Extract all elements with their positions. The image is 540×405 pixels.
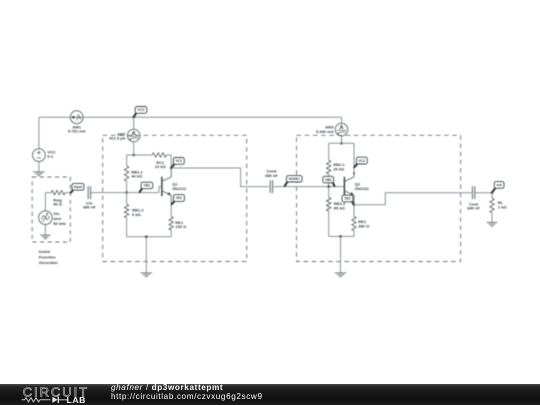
- svg-text:130 Ω: 130 Ω: [175, 224, 187, 229]
- svg-text:680 nF: 680 nF: [265, 173, 278, 178]
- flag VC1: [171, 158, 184, 169]
- capacitor Cin 680nF: [88, 186, 90, 199]
- label RB1-1 44 kOhm: [131, 169, 143, 178]
- svg-text:Generator: Generator: [39, 260, 59, 265]
- svg-text:input: input: [74, 185, 83, 189]
- wire RB1-2 top lead: [126, 193, 128, 205]
- node junction emitter 2: [353, 204, 356, 207]
- wire base jog Q1: [159, 187, 162, 193]
- wire rail2: [329, 142, 354, 144]
- ground stage1: [141, 273, 152, 277]
- svg-text:380 Ω: 380 Ω: [358, 223, 370, 228]
- svg-text:LAB: LAB: [67, 395, 87, 405]
- svg-text:680 nF: 680 nF: [467, 206, 480, 211]
- wire RE2 to rail: [353, 231, 355, 237]
- label Rsig 50 Ohm: [53, 197, 63, 206]
- svg-text:5.340 mA: 5.340 mA: [316, 129, 334, 134]
- node junction out: [491, 191, 494, 194]
- wire emitter to RE1: [170, 205, 172, 217]
- ammeter AM1: [70, 111, 83, 124]
- transistor Q2 2N2222: [344, 173, 354, 205]
- voltage source Vin sine: [39, 211, 53, 225]
- label RC1 10 kOhm: [155, 160, 167, 169]
- svg-text:5.781 mA: 5.781 mA: [68, 129, 86, 134]
- wire VCC rail to AM2: [133, 117, 135, 129]
- dashed box stage 1: [103, 135, 247, 261]
- label RB1-2 6 kOhm: [132, 208, 144, 217]
- wire emitter to RE2: [353, 205, 355, 217]
- credit text: [111, 384, 263, 401]
- resistor RC1: [152, 153, 166, 158]
- svg-text:VCC: VCC: [137, 108, 145, 112]
- CircuitLab logo: [0, 384, 110, 405]
- ground RL: [487, 222, 498, 226]
- svg-text:VB1: VB1: [144, 184, 151, 188]
- voltage source VCC 5V: [33, 149, 46, 162]
- node junction rail2: [340, 142, 343, 145]
- label Q1 2N2222: [172, 181, 187, 191]
- resistor RB1-2: [124, 204, 129, 218]
- svg-text:NODE1: NODE1: [289, 177, 300, 181]
- wire Vin top: [45, 193, 51, 211]
- wire RB2-1 top lead: [328, 143, 330, 160]
- wire VCC source to ground: [38, 162, 40, 172]
- node Q2 collector pin: [353, 172, 355, 174]
- transistor Q1 2N2222: [162, 168, 171, 205]
- svg-text:VE1: VE1: [176, 196, 183, 200]
- wire AM2 to rail1: [133, 142, 135, 155]
- svg-text:85 kΩ: 85 kΩ: [334, 205, 346, 210]
- svg-text:421.5 µA: 421.5 µA: [109, 135, 125, 140]
- label RL 1 kOhm: [498, 200, 508, 210]
- capacitor Cout 680nF: [472, 186, 474, 199]
- svg-text:1 kΩ: 1 kΩ: [498, 205, 508, 210]
- label Q2 2N2222: [355, 182, 370, 192]
- wire Cout to RL: [475, 192, 492, 194]
- label Cmid 680 nF: [265, 169, 278, 178]
- wire Cmid to Q2 base: [273, 186, 345, 188]
- wire bottom rail stage1: [127, 236, 172, 238]
- wire collector drop Q2: [353, 143, 355, 173]
- wire RL top lead: [491, 193, 493, 199]
- bottom credit bar: [0, 384, 540, 405]
- node junction base divider 2: [327, 185, 330, 188]
- wire to ground 2: [340, 236, 342, 273]
- wire bottom rail stage2: [329, 235, 354, 237]
- wire top VCC rail: [39, 117, 342, 123]
- ammeter AM3: [335, 123, 348, 136]
- ammeter AM2: [127, 129, 140, 142]
- node junction ground 2: [339, 235, 342, 238]
- wire to ground 1: [145, 237, 147, 273]
- capacitor Cmid 680nF: [270, 180, 272, 193]
- wire rail1: [127, 154, 153, 156]
- svg-text:VC2: VC2: [359, 159, 366, 163]
- label RE1 130 Ohm: [175, 220, 187, 229]
- dashed box function generator: [32, 177, 70, 242]
- wire Rsig to input flag: [65, 192, 71, 194]
- wire input row stage1: [91, 192, 159, 194]
- flag VCC: [134, 107, 147, 118]
- resistor RB1-1: [124, 166, 129, 181]
- svg-text:29 kΩ: 29 kΩ: [333, 166, 345, 171]
- label AM2 421.5 uA: [109, 131, 126, 140]
- node junction VCC flag: [132, 116, 135, 119]
- svg-text:6 kΩ: 6 kΩ: [132, 212, 142, 217]
- ground VCC: [33, 172, 44, 176]
- svg-text:5 V: 5 V: [47, 154, 53, 159]
- svg-text:VB2: VB2: [325, 178, 332, 182]
- wire RB2-2 top lead: [328, 187, 330, 198]
- node junction input: [70, 192, 72, 194]
- wire RL to ground: [491, 213, 493, 223]
- node junction VC1: [170, 167, 173, 170]
- svg-text:50 kHz: 50 kHz: [53, 221, 66, 226]
- node junction base divider 1: [125, 191, 128, 194]
- flag VC2: [354, 157, 367, 168]
- label Instek Function Generator: [39, 249, 59, 265]
- wire RB1-2 bottom lead: [126, 218, 128, 237]
- wire RB2-1 bottom lead: [328, 174, 330, 187]
- label RB2-1 29 kOhm: [333, 162, 345, 171]
- dashed box stage 2: [297, 135, 461, 261]
- wire RB2-2 bottom lead: [328, 211, 330, 236]
- wire RB1-1 top lead: [126, 155, 128, 166]
- svg-text:2N2222: 2N2222: [355, 186, 370, 191]
- svg-text:44 kΩ: 44 kΩ: [131, 174, 143, 179]
- node junction ground 1: [145, 235, 148, 238]
- svg-text:Function: Function: [39, 255, 56, 260]
- ground Vin: [40, 235, 50, 239]
- flag out: [492, 182, 504, 193]
- wire VCC source to rail: [38, 117, 40, 149]
- wire RC1 to VC1 node: [167, 155, 172, 168]
- svg-text:10 kΩ: 10 kΩ: [155, 164, 167, 169]
- flag NODE1: [284, 176, 302, 187]
- wire rail to AM3 top: [341, 122, 343, 124]
- flag VE1: [171, 195, 184, 205]
- svg-text:50 Ω: 50 Ω: [53, 202, 63, 207]
- wire AM3 to rail2: [341, 136, 343, 143]
- resistor Rsig: [51, 190, 65, 195]
- svg-text:680 nF: 680 nF: [83, 205, 96, 210]
- wire VC1 to Cmid: [171, 168, 269, 187]
- flag input: [71, 183, 84, 192]
- label Cin 680 nF: [83, 200, 96, 209]
- wire RB1-1 bottom lead: [126, 181, 128, 192]
- label RB2-2 85 kOhm: [334, 201, 346, 210]
- wire output: [354, 193, 471, 205]
- label VCC 5V: [47, 149, 56, 159]
- flag VB2: [323, 176, 335, 186]
- ground stage2: [335, 273, 346, 277]
- label RE2 380 Ohm: [358, 219, 370, 228]
- resistor RE1: [169, 217, 174, 230]
- svg-text:out: out: [497, 183, 503, 187]
- resistor RE2: [352, 217, 357, 231]
- svg-text:VC1: VC1: [176, 159, 183, 163]
- label Cout 680 nF: [467, 201, 480, 210]
- node junction rail1: [132, 154, 135, 157]
- wire Vin bottom: [44, 225, 46, 236]
- label AM1 5.781 mA: [68, 124, 86, 133]
- flag VE2: [342, 195, 354, 205]
- label Vin sine 50kHz: [53, 211, 66, 226]
- resistor RB2-2: [326, 198, 331, 212]
- flag VB1: [139, 182, 153, 192]
- resistor RB2-1: [326, 160, 331, 174]
- label AM3 5.340 mA: [316, 125, 334, 134]
- resistor RL: [490, 198, 495, 213]
- wire RE1 to rail: [170, 230, 172, 237]
- svg-text:2N2222: 2N2222: [172, 186, 187, 191]
- svg-text:Instek: Instek: [39, 249, 51, 254]
